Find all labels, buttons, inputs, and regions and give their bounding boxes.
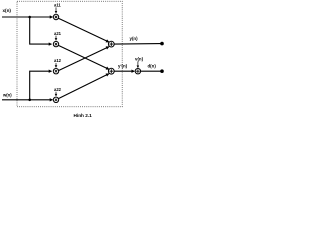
svg-text:w(n): w(n) xyxy=(2,92,12,97)
svg-text:Hình 2.1: Hình 2.1 xyxy=(74,113,93,118)
wire junction down to row2 xyxy=(30,17,52,44)
wire a21 to adder2 xyxy=(58,45,108,69)
svg-text:d(n): d(n) xyxy=(148,63,157,68)
multiplier a22 xyxy=(53,87,61,103)
svg-text:y'(n): y'(n) xyxy=(118,63,128,68)
multiplier a21 xyxy=(53,31,61,47)
svg-text:a21: a21 xyxy=(54,31,62,36)
node junction bottom xyxy=(28,99,31,102)
wire adder1 output xyxy=(114,43,161,46)
adder U1 xyxy=(108,41,114,47)
node junction top xyxy=(28,16,31,19)
adder U3 xyxy=(135,69,140,74)
wire adder2 to sum xyxy=(114,70,134,72)
wire a12 to adder1 xyxy=(58,47,108,71)
node terminal dot bottom xyxy=(160,69,164,73)
svg-text:v(n): v(n) xyxy=(135,57,144,62)
node terminal dot top xyxy=(160,42,164,46)
dashed system box xyxy=(17,1,122,107)
adder U2 xyxy=(108,68,114,74)
svg-text:x(n): x(n) xyxy=(3,8,12,13)
wire input bottom xyxy=(2,99,52,101)
wire a11 to adder1 xyxy=(58,18,108,42)
svg-text:a12: a12 xyxy=(54,58,62,63)
wire a22 to adder2 xyxy=(58,74,108,99)
multiplier a12 xyxy=(53,58,61,74)
wire v(n) arrow down xyxy=(137,61,139,67)
multiplier a11 xyxy=(53,3,61,20)
wire input top xyxy=(2,16,52,18)
svg-text:a22: a22 xyxy=(54,87,62,92)
svg-text:y(n): y(n) xyxy=(130,36,139,41)
svg-text:a11: a11 xyxy=(54,3,61,8)
wire junction up to row3 xyxy=(30,71,52,100)
wire sum output xyxy=(141,70,161,72)
